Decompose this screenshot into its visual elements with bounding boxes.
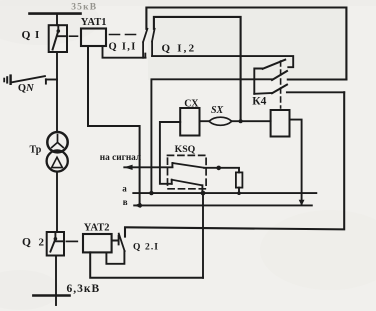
svg-text:Тр: Тр (30, 144, 42, 155)
svg-text:QN: QN (18, 83, 34, 94)
svg-text:Q 2.I: Q 2.I (133, 242, 159, 252)
svg-text:СХ: СХ (184, 98, 199, 109)
svg-text:2: 2 (39, 236, 45, 248)
svg-text:Q I,2: Q I,2 (162, 43, 197, 55)
svg-text:SX: SX (211, 105, 224, 116)
svg-text:Q I,I: Q I,I (109, 42, 137, 53)
svg-text:35кВ: 35кВ (71, 3, 97, 13)
svg-text:а: а (122, 183, 127, 193)
svg-text:KSQ: KSQ (175, 144, 196, 155)
svg-text:YAT1: YAT1 (81, 17, 107, 28)
svg-text:Q: Q (22, 30, 31, 42)
svg-text:на сигнал: на сигнал (100, 153, 141, 163)
svg-text:YAT2: YAT2 (84, 223, 110, 234)
svg-text:в: в (123, 197, 128, 207)
svg-text:Q: Q (22, 236, 31, 248)
svg-text:I: I (35, 29, 39, 41)
svg-text:К4: К4 (252, 95, 266, 107)
svg-text:6,3кВ: 6,3кВ (67, 283, 101, 295)
